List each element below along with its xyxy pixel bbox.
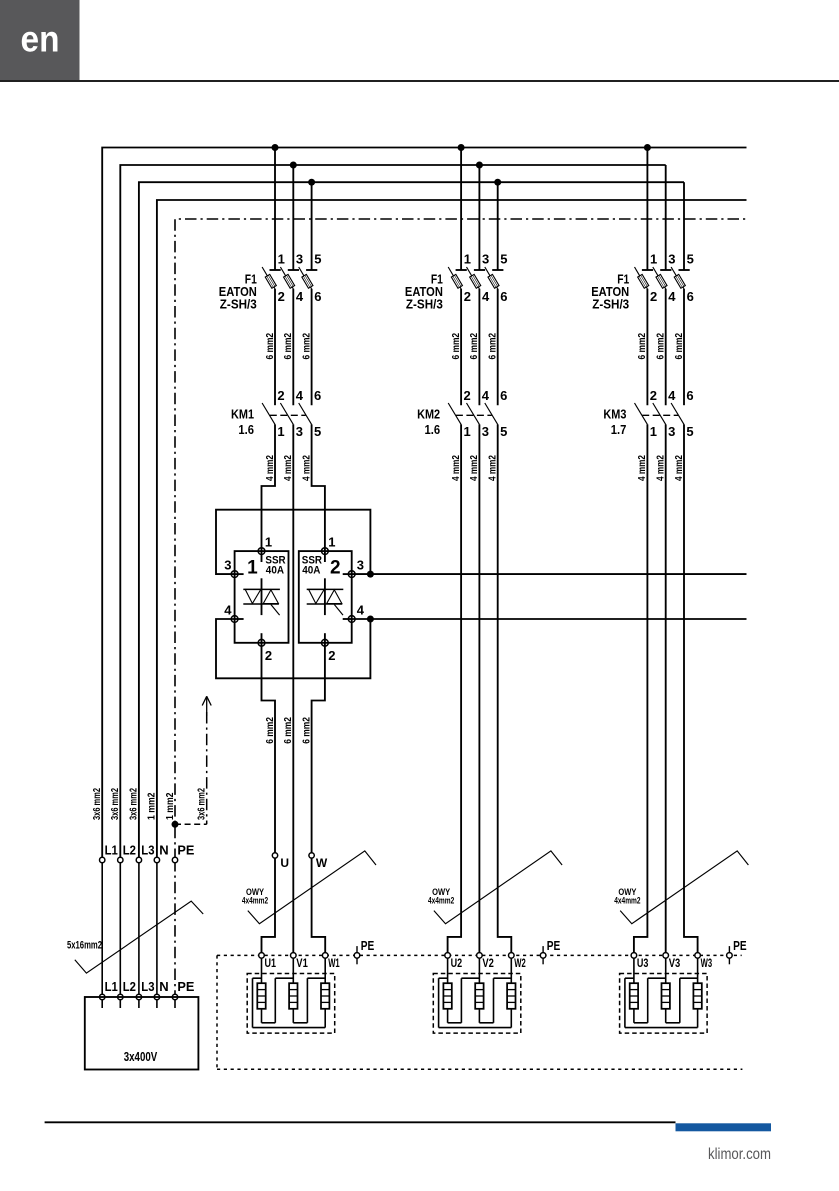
label W1 <box>328 956 340 970</box>
svg-text:3: 3 <box>668 424 675 439</box>
pin label 1 KM2 <box>464 424 471 439</box>
label 4 mm2 KM1 p2 <box>282 455 294 481</box>
pin label 4 F1 g2 <box>482 289 490 304</box>
pin label 2 F1 g1 <box>278 289 285 304</box>
contactor KM2 linkage <box>456 414 492 416</box>
svg-text:L2: L2 <box>123 843 136 858</box>
svg-text:6: 6 <box>686 388 693 403</box>
label F1 EATON Z-SH/3 g1 <box>219 272 257 311</box>
label 6 mm2 g2 p1 <box>450 333 462 360</box>
fuse F1 group2 pole2 <box>467 165 486 289</box>
header rule <box>0 80 839 82</box>
label 3 SSR1 <box>224 558 231 573</box>
svg-text:N: N <box>159 843 168 858</box>
label 2 below SSR2 <box>328 648 335 663</box>
pin label 6 F1 g3 <box>687 289 694 304</box>
cable mark 5x16mm2 <box>75 901 203 973</box>
source box 3x400V <box>85 997 199 1070</box>
label 4 mm2 KM2 p2 <box>468 455 480 481</box>
svg-text:5: 5 <box>687 252 694 267</box>
label 6 mm2 g1 p3 <box>300 333 312 360</box>
svg-text:W: W <box>316 856 328 870</box>
fuse F1 group1 pole3 <box>299 182 318 289</box>
label 1 mm2 feeder PE <box>164 792 176 820</box>
SSR1 pin4 terminal <box>231 616 238 623</box>
svg-text:4: 4 <box>482 289 490 304</box>
heater element V3 <box>662 955 670 1008</box>
svg-text:Z-SH/3: Z-SH/3 <box>592 297 629 311</box>
svg-text:4x4mm2: 4x4mm2 <box>242 895 268 905</box>
wire KM-heater g2 p2 <box>478 424 480 955</box>
svg-text:6 mm2: 6 mm2 <box>264 333 276 360</box>
wire fuse-KM g2 p1 <box>460 289 462 405</box>
terminal V1 <box>291 953 297 959</box>
wire control line 1 <box>370 573 746 575</box>
terminal U1 <box>259 953 265 959</box>
heater bank 1 delta wiring <box>253 978 326 1027</box>
terminal V2 <box>477 953 483 959</box>
label 6 mm2 g1 p1 <box>264 333 276 360</box>
pin label 2 F1 g2 <box>464 289 471 304</box>
label F1 EATON Z-SH/3 g3 <box>591 272 629 311</box>
label 4 mm2 KM2 p1 <box>450 455 462 481</box>
svg-text:L3: L3 <box>141 843 154 858</box>
pin label 3 F1 g1 <box>296 252 303 267</box>
svg-text:1: 1 <box>650 252 657 267</box>
pin label 2 KM2 <box>464 388 471 403</box>
contactor KM3 pole1 contact <box>635 403 648 424</box>
terminal PE row1 <box>172 857 177 862</box>
wire feeder L1 lower <box>101 860 103 997</box>
node control line 1 <box>367 571 374 578</box>
pin label 3 F1 g3 <box>668 252 675 267</box>
pin label 4 F1 g1 <box>296 289 304 304</box>
svg-text:3x6 mm2: 3x6 mm2 <box>196 788 208 820</box>
SSR 1 body <box>235 551 289 643</box>
svg-text:6: 6 <box>687 289 694 304</box>
label OWY 4x4mm2 g2 <box>428 887 454 906</box>
svg-text:6 mm2: 6 mm2 <box>450 333 462 360</box>
svg-text:3: 3 <box>668 252 675 267</box>
pin label 3 KM1 <box>296 424 303 439</box>
svg-text:6: 6 <box>500 388 507 403</box>
heater element W1 <box>321 955 329 1008</box>
label 1 above SSR2 <box>328 535 335 550</box>
SSR1 pin1 terminal <box>258 548 265 555</box>
fuse F1 group3 pole1 <box>635 148 654 289</box>
footer klimor.com <box>708 1146 771 1163</box>
label 6 mm2 g3 p3 <box>673 333 685 360</box>
label V2 <box>482 956 494 970</box>
SSR2 pin4 terminal <box>348 616 355 623</box>
svg-text:3: 3 <box>482 252 489 267</box>
wire fuse-KM g1 p2 <box>292 289 294 405</box>
label W3 <box>701 956 713 970</box>
terminal L2 row2 <box>118 994 123 999</box>
stub L1 into source box <box>101 1000 103 1009</box>
pin label 6 F1 g1 <box>314 289 321 304</box>
label 4 mm2 KM3 p3 <box>673 455 685 481</box>
node L3-F1.2 tap <box>494 179 501 186</box>
en language tab <box>0 0 80 80</box>
terminal V3 <box>663 953 669 959</box>
label 4 mm2 KM1 p3 <box>300 455 312 481</box>
svg-text:2: 2 <box>464 289 471 304</box>
svg-text:4 mm2: 4 mm2 <box>300 455 312 481</box>
svg-text:6 mm2: 6 mm2 <box>673 333 685 360</box>
label PE row1 <box>177 843 194 858</box>
fuse F1 group3 pole3 <box>671 182 690 289</box>
svg-text:4: 4 <box>668 388 676 403</box>
svg-text:4: 4 <box>224 603 232 618</box>
svg-text:2: 2 <box>464 388 471 403</box>
label OWY 4x4mm2 g1 <box>242 887 268 906</box>
terminal PE g3 <box>727 946 733 964</box>
label L1 row2 <box>105 979 118 994</box>
label 1 above SSR1 <box>265 535 272 550</box>
svg-text:5: 5 <box>500 252 507 267</box>
terminal N row1 <box>154 857 159 862</box>
wire feeder N lower <box>156 860 158 997</box>
svg-text:4x4mm2: 4x4mm2 <box>428 895 454 905</box>
label L3 row2 <box>141 979 154 994</box>
stub PE into source box <box>174 1000 176 1009</box>
contactor KM1 pole2 contact <box>280 403 293 424</box>
label SSR1 type <box>265 555 285 577</box>
wire PE dash-dot bus / panel border <box>175 219 747 860</box>
svg-text:3: 3 <box>357 558 364 573</box>
stub N into source box <box>156 1000 158 1009</box>
label V1 <box>296 956 308 970</box>
svg-text:4: 4 <box>668 289 676 304</box>
label V3 <box>669 956 681 970</box>
enclosure dotted left <box>216 955 218 1069</box>
svg-text:6 mm2: 6 mm2 <box>300 333 312 360</box>
terminal PE g1 <box>354 946 360 964</box>
label PE g3 <box>733 938 747 953</box>
terminal W <box>309 853 314 858</box>
svg-text:1: 1 <box>464 424 471 439</box>
node L1-F1.2 tap <box>458 144 465 151</box>
node L3-F1.1 tap <box>308 179 315 186</box>
label L2 row2 <box>123 979 136 994</box>
label 5x16mm2 <box>67 939 102 951</box>
contactor KM3 pole3 contact <box>671 403 684 424</box>
label L1 row1 <box>105 843 118 858</box>
terminal L2 row1 <box>118 857 123 862</box>
svg-text:3: 3 <box>224 558 231 573</box>
wire fuse-KM g3 p2 <box>665 289 667 405</box>
footer blue bar <box>676 1123 772 1131</box>
wire KM1-SSR1 phase A <box>262 424 276 551</box>
label SSR2 type <box>302 555 322 577</box>
pin label 2 KM3 <box>650 388 657 403</box>
pin label 5 KM1 <box>314 424 321 439</box>
terminal PE row2 <box>172 994 177 999</box>
svg-text:2: 2 <box>277 388 284 403</box>
heater element W3 <box>693 955 701 1008</box>
label 4 mm2 KM2 p3 <box>487 455 499 481</box>
contactor KM2 pole1 contact <box>448 403 461 424</box>
svg-text:PE: PE <box>177 979 194 994</box>
pin label 6 F1 g2 <box>500 289 507 304</box>
terminal W3 <box>695 953 701 959</box>
label 4 mm2 KM3 p2 <box>655 455 667 481</box>
label L2 row1 <box>123 843 136 858</box>
pin label 5 F1 g3 <box>687 252 694 267</box>
svg-text:KM1: KM1 <box>231 406 254 421</box>
pin label 4 KM2 <box>482 388 490 403</box>
svg-text:1: 1 <box>328 535 335 550</box>
svg-text:L2: L2 <box>123 979 136 994</box>
label U3 <box>637 956 649 970</box>
label 6 mm2 g2 p2 <box>468 333 480 360</box>
svg-text:N: N <box>159 979 168 994</box>
contactor KM3 pole2 contact <box>653 403 666 424</box>
terminal U3 <box>631 953 637 959</box>
wire KM-heater g3 p3 <box>684 424 698 955</box>
svg-text:4 mm2: 4 mm2 <box>468 455 480 481</box>
label PE g2 <box>547 938 561 953</box>
label KM3 1.7 <box>603 406 626 437</box>
label 4 mm2 KM1 p1 <box>264 455 276 481</box>
svg-text:4: 4 <box>296 289 304 304</box>
terminal W1 <box>322 953 328 959</box>
SSR1 pin2 terminal <box>258 639 265 646</box>
svg-text:1: 1 <box>265 535 272 550</box>
svg-text:V2: V2 <box>482 956 494 970</box>
contactor KM3 linkage <box>642 414 678 416</box>
label 6 mm2 g2 p3 <box>487 333 499 360</box>
svg-text:4: 4 <box>357 603 365 618</box>
terminal N row2 <box>154 994 159 999</box>
terminal L3 row1 <box>136 857 141 862</box>
svg-text:4 mm2: 4 mm2 <box>487 455 499 481</box>
wire fuse-KM g3 p1 <box>646 289 648 405</box>
pin label 5 F1 g1 <box>314 252 321 267</box>
wire feeder L3 lower <box>138 860 140 997</box>
svg-text:1.7: 1.7 <box>611 422 627 437</box>
terminal L1 row2 <box>100 994 105 999</box>
terminal L1 row1 <box>100 857 105 862</box>
svg-text:L1: L1 <box>105 979 118 994</box>
label KM1 1.6 <box>231 406 254 437</box>
svg-text:2: 2 <box>328 648 335 663</box>
svg-text:4 mm2: 4 mm2 <box>673 455 685 481</box>
wire feeder PE lower <box>174 860 176 997</box>
svg-text:3: 3 <box>482 424 489 439</box>
cable mark OWY 4x4mm2 g1 <box>248 851 376 924</box>
wire fuse-KM g1 p3 <box>311 289 313 405</box>
pin label 2 F1 g3 <box>650 289 657 304</box>
label L3 row1 <box>141 843 154 858</box>
svg-text:4x4mm2: 4x4mm2 <box>614 895 640 905</box>
svg-text:4 mm2: 4 mm2 <box>450 455 462 481</box>
fuse F1 group3 pole2 <box>653 165 672 289</box>
terminal U2 <box>445 953 451 959</box>
svg-text:2: 2 <box>650 289 657 304</box>
svg-text:2: 2 <box>650 388 657 403</box>
svg-text:40A: 40A <box>302 565 320 577</box>
svg-text:U2: U2 <box>451 956 463 970</box>
svg-text:U1: U1 <box>265 956 277 970</box>
svg-text:KM3: KM3 <box>603 406 626 421</box>
wire SSR control loop top <box>216 510 370 574</box>
label 4 mm2 KM3 p1 <box>636 455 648 481</box>
svg-text:1.6: 1.6 <box>238 422 254 437</box>
svg-text:5: 5 <box>686 424 693 439</box>
wire fuse-KM g3 p3 <box>683 289 685 405</box>
svg-text:4 mm2: 4 mm2 <box>282 455 294 481</box>
wire KM1-SSR2 phase C <box>312 424 325 551</box>
heater bank 3 delta wiring <box>625 978 698 1027</box>
wire fuse-KM g1 p1 <box>274 289 276 405</box>
svg-text:KM2: KM2 <box>417 406 440 421</box>
wire SSR2-out phase C <box>312 643 326 956</box>
svg-text:2: 2 <box>330 558 341 579</box>
svg-text:L1: L1 <box>105 843 118 858</box>
svg-text:3: 3 <box>296 252 303 267</box>
heater bank 1 dashed box <box>247 974 335 1034</box>
svg-text:4 mm2: 4 mm2 <box>264 455 276 481</box>
svg-text:2: 2 <box>265 648 272 663</box>
svg-text:4: 4 <box>482 388 490 403</box>
svg-text:W3: W3 <box>701 956 713 970</box>
svg-text:1: 1 <box>464 252 471 267</box>
terminal U <box>272 853 277 858</box>
svg-text:1 mm2: 1 mm2 <box>146 792 158 820</box>
SSR2 pin1 terminal <box>322 548 329 555</box>
label U1 <box>265 956 277 970</box>
SSR 2 body <box>299 551 352 643</box>
svg-text:V3: V3 <box>669 956 681 970</box>
contactor KM1 pole1 contact <box>262 403 275 424</box>
svg-text:W1: W1 <box>328 956 340 970</box>
label SSR1 big 1 <box>247 558 258 579</box>
svg-text:3x6 mm2: 3x6 mm2 <box>109 788 121 820</box>
svg-text:PE: PE <box>547 938 561 953</box>
svg-text:6 mm2: 6 mm2 <box>264 717 276 744</box>
node PE branch <box>172 821 179 828</box>
svg-text:6: 6 <box>314 289 321 304</box>
pin label 6 KM1 <box>314 388 321 403</box>
wire SSR control loop bottom <box>216 619 370 678</box>
svg-text:U: U <box>280 856 289 870</box>
pin label 4 KM3 <box>668 388 676 403</box>
pin label 5 KM3 <box>686 424 693 439</box>
enclosure dotted bottom <box>217 1068 742 1070</box>
label U2 <box>451 956 463 970</box>
label SSR2 big 2 <box>330 558 341 579</box>
node L1-F1.1 tap <box>272 144 279 151</box>
svg-text:1 mm2: 1 mm2 <box>164 792 176 820</box>
svg-text:6 mm2: 6 mm2 <box>636 333 648 360</box>
svg-text:W2: W2 <box>514 956 526 970</box>
pin label 1 KM1 <box>277 424 284 439</box>
label 3x6 mm2 feeder L3 <box>128 788 140 820</box>
svg-text:2: 2 <box>278 289 285 304</box>
label OWY 4x4mm2 g3 <box>614 887 640 906</box>
contactor KM1 linkage <box>270 414 306 416</box>
label 3x6 mm2 control <box>196 788 208 820</box>
wire control line 2 <box>370 618 746 620</box>
pin label 4 F1 g3 <box>668 289 676 304</box>
heater element V2 <box>475 955 483 1008</box>
wire L1 bus <box>102 148 746 861</box>
svg-text:4 mm2: 4 mm2 <box>655 455 667 481</box>
pin label 3 KM2 <box>482 424 489 439</box>
svg-text:1: 1 <box>277 424 284 439</box>
label N row2 <box>159 979 168 994</box>
label 6 mm2 g1 p2 <box>282 333 294 360</box>
svg-text:1.6: 1.6 <box>425 422 441 437</box>
terminal W2 <box>509 953 515 959</box>
svg-text:1: 1 <box>650 424 657 439</box>
label 3 SSR2 <box>357 558 364 573</box>
svg-text:3x400V: 3x400V <box>124 1050 158 1064</box>
SSR2 pin3 terminal <box>348 571 355 578</box>
svg-text:klimor.com: klimor.com <box>708 1146 771 1163</box>
svg-text:1: 1 <box>278 252 285 267</box>
svg-text:3: 3 <box>296 424 303 439</box>
label PE row2 <box>177 979 194 994</box>
heater element V1 <box>289 955 297 1008</box>
svg-text:3x6 mm2: 3x6 mm2 <box>91 788 103 820</box>
svg-text:6: 6 <box>314 388 321 403</box>
contactor KM1 pole3 contact <box>299 403 312 424</box>
pin label 6 KM2 <box>500 388 507 403</box>
wire KM1 phase B (bypass) <box>292 424 294 955</box>
label 3x6 mm2 feeder L2 <box>109 788 121 820</box>
svg-text:6 mm2: 6 mm2 <box>282 717 294 744</box>
wire L3 bus <box>139 182 684 860</box>
label W <box>316 856 328 870</box>
fuse F1 group1 pole2 <box>280 165 299 289</box>
node control line 2 <box>367 616 374 623</box>
heater element W2 <box>507 955 515 1008</box>
svg-text:Z-SH/3: Z-SH/3 <box>220 297 257 311</box>
pin label 3 F1 g2 <box>482 252 489 267</box>
pin label 2 KM1 <box>277 388 284 403</box>
svg-text:6 mm2: 6 mm2 <box>300 717 312 744</box>
label 4 SSR2 <box>357 603 365 618</box>
wire KM-heater g3 p2 <box>665 424 667 955</box>
svg-text:40A: 40A <box>266 565 284 577</box>
svg-text:PE: PE <box>733 938 747 953</box>
svg-text:en: en <box>21 19 60 60</box>
heater bank 2 delta wiring <box>439 978 512 1027</box>
label N row1 <box>159 843 168 858</box>
node L1-F1.3 tap <box>644 144 651 151</box>
svg-text:U3: U3 <box>637 956 649 970</box>
heater element U2 <box>443 955 451 1008</box>
svg-text:4 mm2: 4 mm2 <box>636 455 648 481</box>
svg-text:6 mm2: 6 mm2 <box>282 333 294 360</box>
label 6 mm2 g3 p2 <box>655 333 667 360</box>
svg-text:6 mm2: 6 mm2 <box>655 333 667 360</box>
fuse F1 group1 pole1 <box>262 148 281 289</box>
wire KM-heater g2 p3 <box>498 424 512 955</box>
SSR1 pin3 terminal <box>231 571 238 578</box>
terminal L3 row2 <box>136 994 141 999</box>
wire KM-heater g3 p1 <box>634 424 648 955</box>
stub L3 into source box <box>138 1000 140 1009</box>
heater bank 2 dashed box <box>433 974 521 1034</box>
wire fuse-KM g2 p2 <box>478 289 480 405</box>
enclosure dotted top <box>217 954 742 956</box>
footer rule <box>45 1121 676 1123</box>
heater element U1 <box>257 955 265 1008</box>
